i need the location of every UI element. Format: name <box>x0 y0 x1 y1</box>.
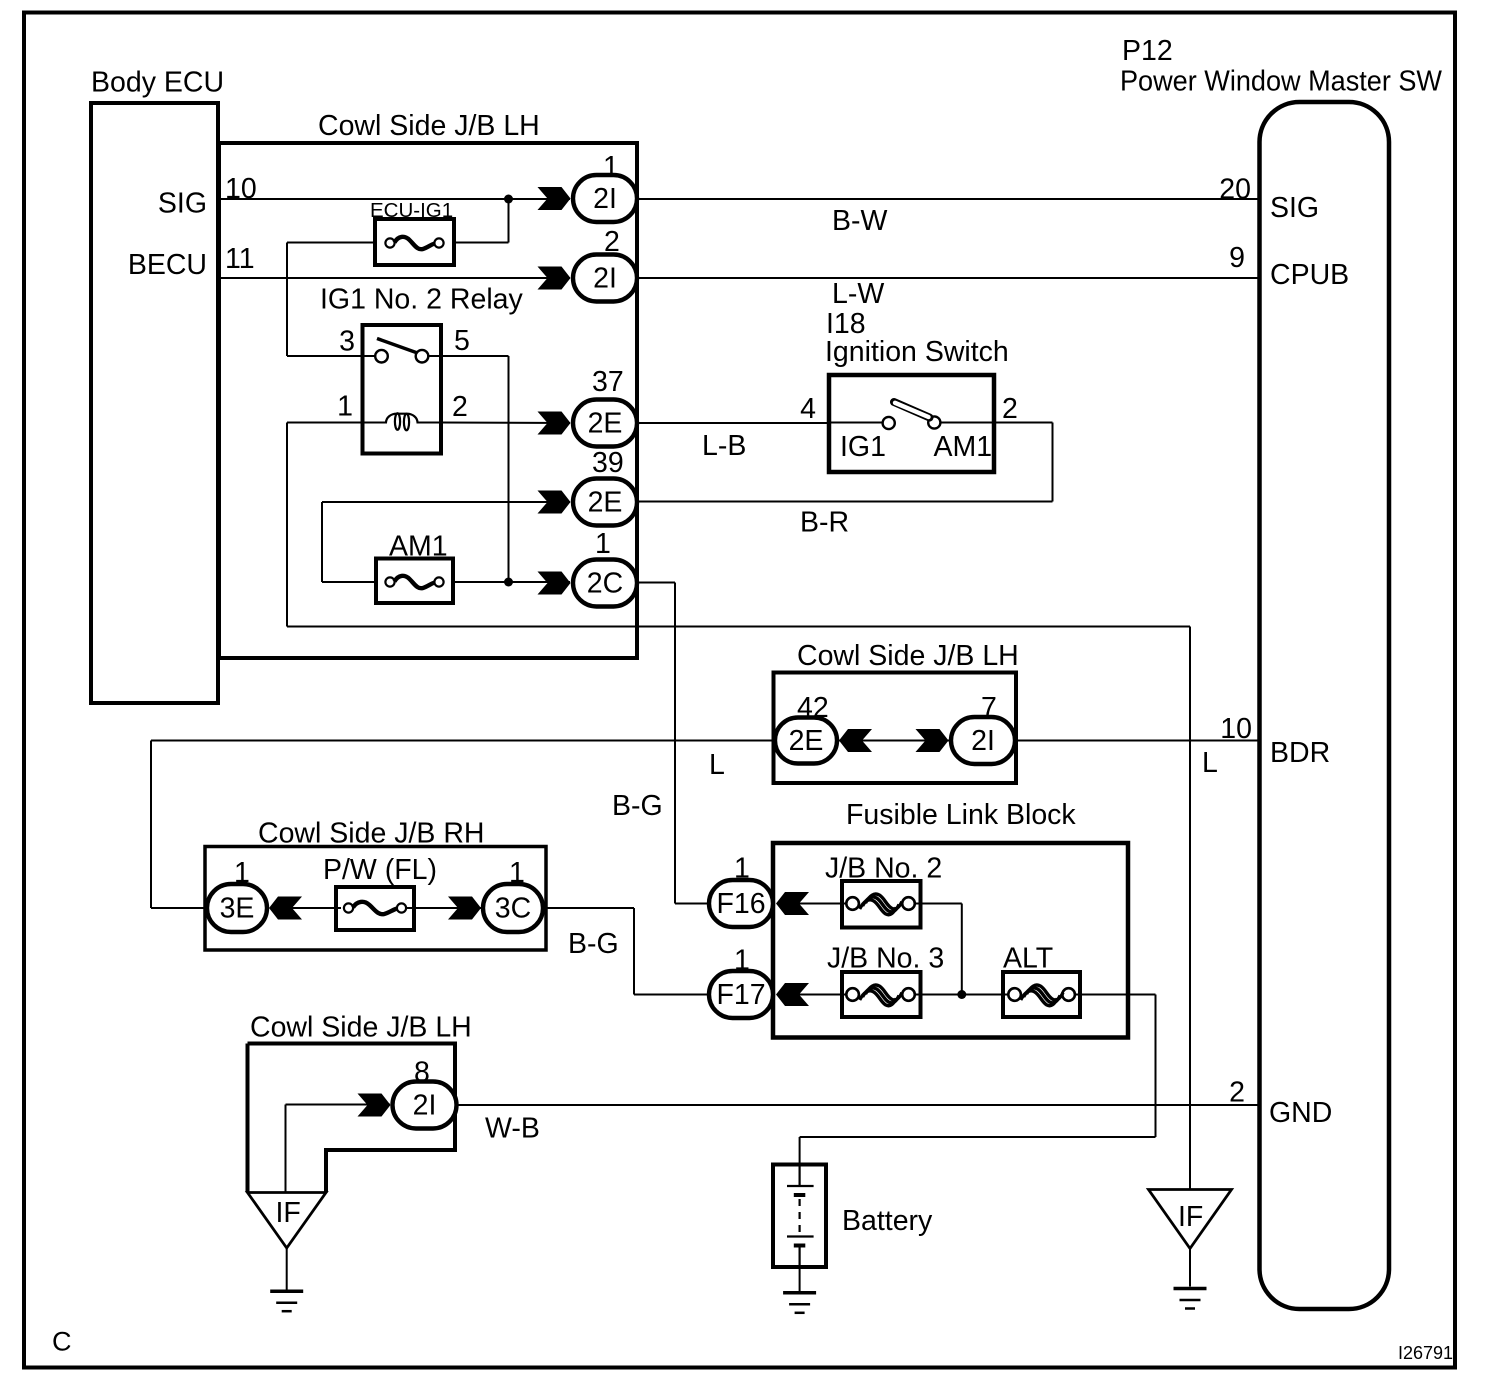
connector 2E pin 39 <box>538 447 638 526</box>
wire W-B: connector 2I pin 8 to P12 pin 2 <box>457 1104 1260 1106</box>
connector P12 Power Window Master SW <box>1120 35 1442 1309</box>
page label C <box>52 1327 72 1357</box>
svg-text:F17: F17 <box>716 979 765 1011</box>
relay coil <box>386 413 418 430</box>
relay pin number 1 <box>337 391 353 423</box>
svg-text:J/B No. 3: J/B No. 3 <box>827 943 944 975</box>
svg-text:C: C <box>52 1327 72 1357</box>
connector 3E pin 1 <box>207 857 302 932</box>
ignition switch pin number 2 <box>1002 393 1018 425</box>
svg-text:W-B: W-B <box>485 1113 540 1145</box>
wire L-B: connector 2E pin 37 to ignition switch pin 4 <box>637 422 829 424</box>
connector 2I pin 8 <box>358 1057 457 1129</box>
svg-text:IG1: IG1 <box>840 431 886 463</box>
svg-text:B-G: B-G <box>612 790 663 822</box>
wire label L-W <box>832 278 884 310</box>
wire B-W: connector 2I pin 1 to P12 pin 20 <box>637 198 1260 200</box>
svg-text:20: 20 <box>1219 174 1251 206</box>
relay pin number 3 <box>339 326 355 358</box>
wire: F17 to fuse J/B No. 3 <box>778 994 848 996</box>
junction block: Cowl Side J/B LH (middle) <box>774 640 1019 783</box>
svg-text:P/W (FL): P/W (FL) <box>323 854 437 886</box>
connector 3C pin 1 <box>448 857 543 932</box>
svg-text:ALT: ALT <box>1003 943 1053 975</box>
ignition switch blade <box>894 402 930 418</box>
pin number 11 (Body ECU BECU) <box>225 243 255 275</box>
wire label L-B <box>702 430 746 462</box>
svg-text:B-G: B-G <box>568 928 619 960</box>
node: junction on SIG wire <box>504 195 513 204</box>
P12 pin number 2 <box>1229 1077 1245 1109</box>
wire B-G: connector 2C to connector F16 <box>637 583 710 904</box>
svg-text:SIG: SIG <box>158 188 207 220</box>
wire: fuse ALT to battery <box>800 995 1156 1165</box>
connector 2I pin 2 <box>538 226 638 302</box>
svg-text:IF: IF <box>276 1197 301 1229</box>
connector 2I pin 1 <box>538 151 638 222</box>
ignition switch terminal label AM1 <box>934 431 993 463</box>
wire label B-G (upper) <box>612 790 663 822</box>
wire BECU: Body ECU pin 11 to connector 2I pin 2 <box>218 277 570 279</box>
fuse J/B No. 3 <box>827 943 944 1018</box>
svg-text:2I: 2I <box>593 263 617 295</box>
fuse AM1 <box>376 531 453 604</box>
wire: F16 to fuse J/B No. 2 <box>778 903 848 905</box>
ignition switch terminal label IG1 <box>840 431 886 463</box>
switch I18 Ignition Switch box <box>825 308 1009 472</box>
connector 2C pin 1 <box>538 528 638 607</box>
connector IF (left) triangle <box>248 1193 327 1249</box>
svg-text:Cowl Side J/B LH: Cowl Side J/B LH <box>797 640 1019 672</box>
ignition switch internal wire <box>829 422 994 424</box>
svg-text:Cowl Side J/B LH: Cowl Side J/B LH <box>318 110 540 142</box>
wire B-G: connector 3C to connector F17 <box>543 908 710 995</box>
connector 2I pin 7 <box>916 692 1016 764</box>
fuse J/B No. 2 <box>825 853 942 928</box>
connector 2E pin 37 <box>538 366 638 447</box>
svg-text:3E: 3E <box>220 893 255 925</box>
node: junction before 2C <box>504 578 513 587</box>
svg-text:AM1: AM1 <box>934 431 993 463</box>
connector F17 <box>709 945 809 1019</box>
svg-text:2I: 2I <box>593 183 617 215</box>
svg-text:Cowl Side J/B LH: Cowl Side J/B LH <box>250 1012 472 1044</box>
svg-text:P12: P12 <box>1122 35 1173 67</box>
figure number I26791 <box>1398 1343 1453 1363</box>
ground: right IF triangle <box>1174 1249 1207 1309</box>
svg-text:2: 2 <box>1002 393 1018 425</box>
svg-text:2: 2 <box>452 391 468 423</box>
svg-text:BDR: BDR <box>1270 737 1330 769</box>
svg-text:B-W: B-W <box>832 205 888 237</box>
svg-text:11: 11 <box>225 243 255 275</box>
wire label B-G (lower) <box>568 928 619 960</box>
wire label B-W <box>832 205 888 237</box>
svg-text:4: 4 <box>800 393 816 425</box>
relay IG1 No. 2 Relay box <box>320 284 524 454</box>
svg-text:Cowl Side J/B RH: Cowl Side J/B RH <box>258 818 484 850</box>
svg-text:Power Window Master SW: Power Window Master SW <box>1120 66 1442 98</box>
svg-text:L: L <box>1202 747 1218 779</box>
svg-text:BECU: BECU <box>128 249 207 281</box>
svg-text:L: L <box>709 749 725 781</box>
wire: junction down to ECU-IG1 fuse <box>454 199 509 243</box>
pin label BECU of Body ECU <box>128 249 207 281</box>
connector 2E pin 42 <box>775 692 872 764</box>
relay switch contacts <box>375 350 428 363</box>
svg-text:3: 3 <box>339 326 355 358</box>
junction block: Cowl Side J/B LH (upper) <box>219 110 637 658</box>
svg-text:Battery: Battery <box>842 1205 933 1237</box>
P12 pin label SIG <box>1270 192 1319 224</box>
fuse P/W (FL) <box>323 854 437 930</box>
svg-text:I26791: I26791 <box>1398 1343 1453 1363</box>
P12 pin number 20 <box>1219 174 1251 206</box>
wire label L (right) <box>1202 747 1218 779</box>
relay pin number 2 <box>452 391 468 423</box>
junction block: Cowl Side J/B RH <box>205 818 546 951</box>
ignition switch pin number 4 <box>800 393 816 425</box>
svg-text:F16: F16 <box>716 888 765 920</box>
svg-text:3C: 3C <box>495 893 531 925</box>
svg-text:IG1 No. 2 Relay: IG1 No. 2 Relay <box>320 284 524 316</box>
svg-text:2E: 2E <box>588 487 623 519</box>
svg-text:2I: 2I <box>413 1090 437 1122</box>
pin label SIG of Body ECU <box>158 188 207 220</box>
ground: battery <box>783 1267 816 1313</box>
wire: fuse AM1 to connector 2C <box>453 581 570 583</box>
wire: BDR run down to connector 3E <box>151 741 208 909</box>
svg-text:L-B: L-B <box>702 430 746 462</box>
wire label B-R <box>800 507 849 539</box>
svg-text:SIG: SIG <box>1270 192 1319 224</box>
block: Fusible Link Block <box>773 799 1128 1038</box>
connector F16 <box>709 853 809 928</box>
wire B-R: ignition switch pin 2 to connector 2E pin 39 <box>637 423 1053 502</box>
wire: fuse J/B No. 3 to fuse ALT <box>914 994 1009 996</box>
svg-text:2C: 2C <box>587 568 623 600</box>
svg-text:2E: 2E <box>588 408 623 440</box>
fuse ALT <box>1003 943 1080 1018</box>
svg-text:9: 9 <box>1229 242 1245 274</box>
svg-text:39: 39 <box>592 447 624 479</box>
junction block: Cowl Side J/B LH (lower) <box>248 1012 472 1193</box>
wire L / BDR: P12 pin 10 through middle J/B <box>151 740 1260 742</box>
svg-text:2I: 2I <box>971 725 995 757</box>
P12 pin label GND <box>1269 1097 1332 1129</box>
ground: left IF triangle <box>270 1248 303 1311</box>
wire: relay pin 1 ground run to IF triangle (right) <box>287 423 1190 1190</box>
relay internal wires <box>363 356 442 423</box>
svg-text:37: 37 <box>592 366 624 398</box>
P12 pin label CPUB <box>1270 259 1349 291</box>
svg-text:CPUB: CPUB <box>1270 259 1349 291</box>
wire L-W: connector 2I pin 2 to P12 pin 9 <box>637 277 1260 279</box>
wire label W-B <box>485 1113 540 1145</box>
battery <box>773 1165 933 1268</box>
wire: fuse P/W (FL) to 3C <box>406 907 481 909</box>
svg-text:Ignition Switch: Ignition Switch <box>825 336 1009 368</box>
wire: IF triangle to connector 2I pin 8 <box>286 1105 391 1193</box>
svg-text:IF: IF <box>1178 1201 1203 1233</box>
wire label L (left) <box>709 749 725 781</box>
ECU box: Body ECU <box>91 67 224 704</box>
wire: 3E to fuse P/W (FL) <box>271 907 341 909</box>
node: junction between J/B No. 3 and ALT <box>957 990 966 999</box>
wire: connector 2E pin 39 to fuse AM1 <box>322 502 570 582</box>
wire SIG: Body ECU pin 10 to connector 2I pin 1 <box>218 198 570 200</box>
P12 pin label BDR <box>1270 737 1330 769</box>
wire: relay pin 5 to junction before 2C <box>441 356 509 582</box>
svg-text:GND: GND <box>1269 1097 1332 1129</box>
svg-text:10: 10 <box>225 173 257 205</box>
relay switch blade <box>377 339 418 354</box>
relay pin number 5 <box>454 325 470 357</box>
P12 pin number 9 <box>1229 242 1245 274</box>
svg-text:1: 1 <box>595 528 611 560</box>
P12 pin number 10 <box>1220 713 1252 745</box>
wire: fuse J/B No. 2 to junction <box>914 904 962 995</box>
svg-text:5: 5 <box>454 325 470 357</box>
connector IF (right) triangle <box>1149 1190 1232 1249</box>
wire: relay pin 2 to connector 2E pin 37 <box>441 422 570 425</box>
pin number 10 (Body ECU SIG) <box>225 173 257 205</box>
fuse ECU-IG1 <box>370 199 454 265</box>
wire: ECU-IG1 fuse to relay pin 3 <box>287 243 375 357</box>
ignition switch contacts <box>883 416 941 429</box>
svg-text:2: 2 <box>1229 1077 1245 1109</box>
svg-text:Fusible Link Block: Fusible Link Block <box>846 799 1076 831</box>
svg-text:L-W: L-W <box>832 278 884 310</box>
svg-text:Body ECU: Body ECU <box>91 67 224 99</box>
svg-text:B-R: B-R <box>800 507 849 539</box>
svg-text:2E: 2E <box>789 725 824 757</box>
svg-text:1: 1 <box>337 391 353 423</box>
